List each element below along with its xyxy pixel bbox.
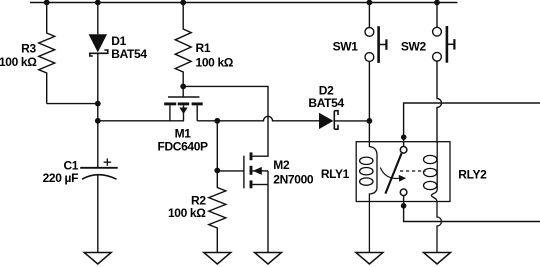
relay RLY2 coil: [424, 142, 442, 253]
svg-text:M2: M2: [273, 158, 290, 172]
resistor R2: [209, 171, 226, 253]
svg-text:RLY2: RLY2: [458, 168, 487, 182]
wire M1 drain dot down to R2 dot: [216, 121, 218, 171]
svg-text:FDC640P: FDC640P: [157, 140, 208, 154]
relay armature: [385, 153, 401, 193]
ground (RLY2): [424, 253, 451, 265]
capacitor C1: [80, 158, 118, 252]
ground (C1): [84, 253, 111, 265]
svg-text:R3: R3: [21, 42, 36, 56]
node R2/M2 gate: [214, 168, 220, 174]
node R3/D1: [95, 101, 101, 107]
switch SW2: [433, 3, 455, 63]
svg-text:100 kΩ: 100 kΩ: [196, 55, 234, 69]
node R1/M1 gate: [180, 84, 186, 90]
wire node into relay RLY1 coil: [368, 121, 370, 142]
svg-text:BAT54: BAT54: [111, 47, 147, 61]
relay linkage dashed line: [400, 170, 426, 172]
wire SW2 down (hump over contact wire) to RLY2 coil: [437, 61, 442, 142]
wire drain dot to D2 anode (hump over M2 drain line): [217, 116, 319, 120]
svg-text:2N7000: 2N7000: [273, 173, 314, 187]
relay RLY1 coil: [360, 142, 377, 253]
relay box: [356, 142, 450, 202]
node M1 drain/R2: [214, 118, 220, 124]
diode D1: [89, 3, 108, 168]
resistor R3: [39, 3, 55, 104]
svg-text:100 kΩ: 100 kΩ: [168, 206, 206, 220]
relay pin dot bottom: [401, 203, 407, 209]
switch SW1: [365, 3, 386, 63]
diode D2: [319, 111, 369, 130]
svg-text:100 kΩ: 100 kΩ: [0, 55, 37, 69]
ground (RLY1): [356, 253, 383, 265]
relay contact top: [400, 147, 407, 154]
wire gate node to M2 drain: [183, 86, 268, 156]
svg-text:SW2: SW2: [401, 39, 427, 53]
relay contact bottom: [400, 189, 407, 196]
wire bottom contact down and right to edge: [404, 196, 540, 222]
wire node to M1 source: [98, 120, 184, 122]
svg-text:M1: M1: [175, 127, 192, 141]
node rail/R3: [44, 0, 50, 5]
node rail/SW1: [367, 0, 373, 5]
node D1/C1/M1 source: [95, 118, 101, 124]
svg-text:RLY1: RLY1: [321, 167, 350, 181]
wire M1 drain to dot: [197, 120, 217, 122]
wire relay top contact up and right to edge: [404, 103, 540, 147]
relay actuate arrow: [380, 168, 406, 182]
ground (R2): [204, 253, 231, 265]
mosfet M2: [217, 152, 268, 252]
relay pin dot top: [401, 134, 407, 140]
wire R3 bottom to D1 column: [47, 103, 98, 105]
wire top rail: [30, 2, 458, 4]
svg-text:SW1: SW1: [333, 40, 359, 54]
svg-text:R1: R1: [196, 41, 211, 55]
svg-text:BAT54: BAT54: [308, 96, 344, 110]
node rail/SW2: [434, 0, 440, 5]
ground (M2): [255, 253, 282, 265]
resistor R1: [175, 3, 191, 87]
mosfet M1: [164, 86, 203, 120]
wire SW1 to D2 node: [368, 62, 370, 121]
node D2/SW1: [367, 118, 373, 124]
node rail/R1: [180, 0, 186, 5]
svg-text:220 µF: 220 µF: [43, 171, 79, 185]
node rail/D1: [95, 0, 101, 5]
svg-text:D1: D1: [111, 34, 126, 48]
